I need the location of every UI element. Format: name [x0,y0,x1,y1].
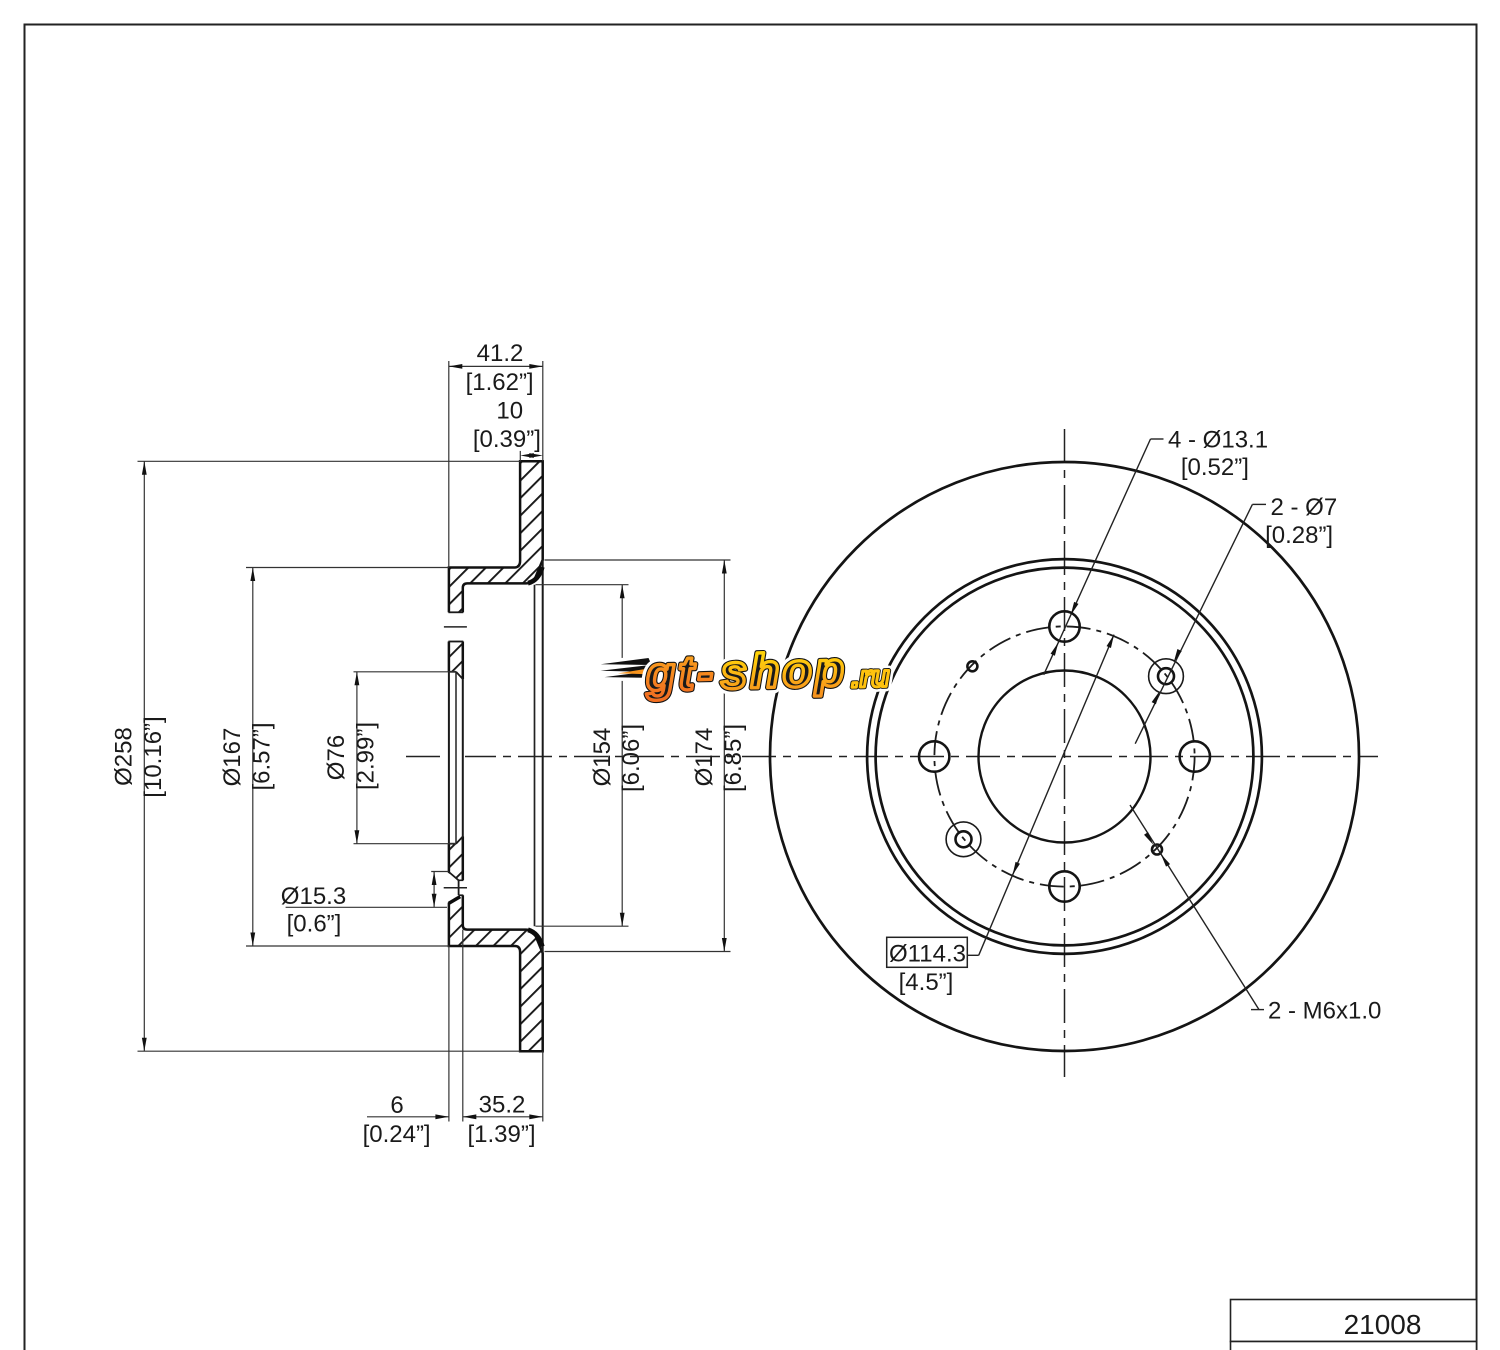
bolt hole bottom Ø13.1 [1049,871,1079,901]
dimension Ø15.3 countersink [281,872,449,938]
disc material cross-section (hatched) [449,461,543,1051]
leader 4-Ø13.1 [1044,427,1268,675]
dimension Ø258 [111,461,521,1051]
center bore cut (white gap, Ø76 with chamfers) [447,672,465,844]
leader 2-Ø7 [1135,494,1337,744]
svg-text:[0.39”]: [0.39”] [473,426,541,453]
leader 2-M6x1.0 [1130,805,1381,1025]
svg-text:Ø15.3: Ø15.3 [281,883,346,910]
svg-text:4 - Ø13.1: 4 - Ø13.1 [1168,427,1268,454]
dimension Ø114.3 bolt circle [887,634,1117,996]
svg-text:[0.24”]: [0.24”] [363,1121,431,1148]
dimension Ø76 [323,672,456,844]
TITLEBLOCK [1231,1300,1477,1350]
svg-text:shop: shop [720,643,848,699]
svg-text:10: 10 [496,398,523,425]
dimension Ø154 [536,585,646,927]
svg-text:21008: 21008 [1344,1309,1422,1340]
bolt hole left Ø13.1 [919,741,949,771]
svg-text:Ø258: Ø258 [111,727,138,786]
bolt hole top Ø13.1 [1049,611,1079,641]
svg-text:[1.39”]: [1.39”] [467,1121,535,1148]
part number cell [1231,1300,1477,1342]
FRONT_VIEW [770,427,1381,1078]
gt-shop.ru wordmark [644,642,890,701]
lower cell (cut off by page bottom) [1231,1342,1477,1350]
svg-text:[0.6”]: [0.6”] [287,911,342,938]
svg-text:.ru: .ru [851,660,890,694]
svg-text:gt-: gt- [644,647,717,702]
svg-text:Ø154: Ø154 [589,728,616,787]
heavy fillet blob at upper hat/ring junction [528,567,542,583]
LOGO [600,642,890,703]
svg-text:Ø76: Ø76 [323,735,350,780]
svg-text:[1.62”]: [1.62”] [466,369,534,396]
svg-text:[10.16”]: [10.16”] [140,716,167,797]
lower accessory hole cut (Ø7 with Ø15.3 countersink) [444,872,467,904]
dimension Ø174 [545,560,748,952]
svg-text:[6.57”]: [6.57”] [248,722,275,790]
set screw hole NW M6x1.0 [967,661,977,671]
svg-text:Ø167: Ø167 [219,728,246,787]
bolt circle Ø114.3 (dash-dot) [934,626,1194,886]
accessory hole NE Ø7 with Ø15.3 countersink [1158,668,1174,684]
heavy fillet blob at lower hat/ring junction [528,930,542,947]
center pilot bore Ø76 [979,671,1151,843]
svg-text:35.2: 35.2 [479,1092,526,1119]
far-side edge of ring inner hole (Ø174 silhouette) [542,560,544,953]
SECTION_VIEW [111,340,1379,1148]
speed spikes [600,658,662,680]
outer disc circle Ø258 [770,462,1359,1051]
accessory hole SW Ø7 with Ø15.3 countersink [956,831,972,847]
bolt hole right Ø13.1 [1180,741,1210,771]
dimension Ø167 [219,568,449,947]
svg-text:Ø174: Ø174 [691,728,718,787]
svg-text:6: 6 [390,1092,403,1119]
set screw hole SE M6x1.0 [1152,845,1162,855]
far-side edge of hat cylinder bore (Ø154 silhouette) [534,585,536,927]
svg-text:[6.85”]: [6.85”] [720,724,747,792]
svg-text:[4.5”]: [4.5”] [899,969,954,996]
svg-text:2 - Ø7: 2 - Ø7 [1271,494,1338,521]
svg-text:Ø114.3: Ø114.3 [889,941,966,968]
main horizontal axis center line [406,756,1378,758]
vertical axis center line [1064,429,1066,1077]
svg-text:41.2: 41.2 [477,340,524,367]
svg-text:2 - M6x1.0: 2 - M6x1.0 [1268,998,1381,1025]
top bolt hole cut (white gap in hat face) [444,612,467,641]
svg-text:[0.52”]: [0.52”] [1181,454,1249,481]
svg-text:[6.06”]: [6.06”] [618,724,645,792]
svg-text:[0.28”]: [0.28”] [1265,522,1333,549]
hat outer circle Ø167 [876,568,1254,946]
braking band inner circle Ø174 [867,559,1262,954]
svg-text:[2.99”]: [2.99”] [353,722,380,790]
